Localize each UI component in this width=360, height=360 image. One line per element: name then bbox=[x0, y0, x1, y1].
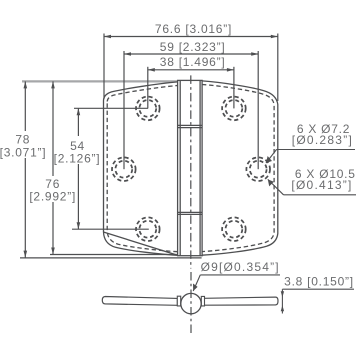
arrow 76 bottom bbox=[51, 248, 55, 255]
side view: left curl junction bbox=[177, 296, 180, 306]
svg-text:59 [2.323”]: 59 [2.323”] bbox=[160, 40, 226, 54]
barrel (knuckle column) bbox=[178, 80, 203, 255]
dimension 76.6 left extension bbox=[103, 34, 105, 100]
arrowheads bbox=[24, 35, 278, 258]
knuckle gap 1 bbox=[178, 124, 203, 126]
svg-text:76.6 [3.016”]: 76.6 [3.016”] bbox=[155, 22, 232, 36]
arrow 54 top bbox=[77, 108, 81, 115]
arrow 76 top bbox=[51, 81, 55, 88]
54 top extension line bbox=[74, 107, 148, 109]
side view (bottom): left leaf bbox=[102, 297, 177, 306]
svg-text:3.8 [0.150”]: 3.8 [0.150”] bbox=[284, 274, 354, 288]
arrow 59 left bbox=[124, 52, 131, 56]
svg-text:[Ø0.283”]: [Ø0.283”] bbox=[292, 133, 353, 147]
hole bottom-right bbox=[222, 217, 246, 241]
arrow O10.5 bbox=[268, 179, 274, 186]
svg-text:[Ø0.413”]: [Ø0.413”] bbox=[291, 178, 352, 192]
svg-text:[2.992”]: [2.992”] bbox=[29, 190, 76, 204]
dimension 76 line bbox=[52, 81, 54, 176]
hole bottom-left bbox=[136, 217, 160, 241]
dimension 78 line bbox=[24, 81, 26, 131]
arrow 3.8 top bbox=[281, 291, 284, 297]
side view: barrel circle bbox=[181, 293, 201, 313]
dimension 38 line bbox=[148, 69, 234, 71]
screw holes: dashed double circles bbox=[112, 97, 270, 241]
dimension 38 right extension bbox=[233, 67, 235, 109]
svg-text:[3.071”]: [3.071”] bbox=[0, 146, 46, 160]
arrow 78 bottom bbox=[24, 251, 28, 258]
arrow 3.8 bottom bbox=[281, 305, 284, 311]
arrow 38 right bbox=[227, 68, 234, 72]
svg-text:[2.126”]: [2.126”] bbox=[54, 152, 101, 166]
hole top-right bbox=[222, 97, 246, 121]
side view: pin center line bbox=[190, 272, 192, 334]
arrow 38 left bbox=[148, 68, 155, 72]
pin center line (main view) bbox=[190, 75, 192, 268]
dimension 59 right extension bbox=[257, 51, 259, 169]
78 bottom extension line bbox=[20, 257, 202, 259]
side view: right curl junction bbox=[201, 296, 204, 306]
hole mid-right bbox=[246, 157, 270, 181]
hinge leaf outline (top view) bbox=[104, 81, 278, 255]
knuckle gap 2 bbox=[178, 211, 203, 213]
leaf junction inner lines bbox=[179, 80, 181, 255]
dimension 54 line bbox=[77, 108, 79, 136]
dimension 59 left extension bbox=[123, 51, 125, 169]
arrow O7.2 bbox=[266, 156, 272, 163]
dimension 38 left extension bbox=[147, 67, 149, 109]
arrow 59 right bbox=[251, 52, 258, 56]
leader for O9 bbox=[200, 274, 280, 276]
leader for 6 X O10.5 bbox=[284, 194, 357, 196]
svg-text:78: 78 bbox=[15, 133, 30, 147]
dimension 59 line bbox=[124, 53, 258, 55]
76 bottom extension line bbox=[50, 254, 177, 256]
hole mid-left bbox=[112, 157, 136, 181]
arrow 78 top bbox=[24, 81, 28, 88]
svg-text:Ø9[Ø0.354”]: Ø9[Ø0.354”] bbox=[201, 260, 280, 274]
hole top-left bbox=[136, 97, 160, 121]
hinge hidden (dashed) inner outline bbox=[107, 85, 274, 252]
dimension 76.6 line bbox=[104, 36, 278, 38]
54 bottom extension line bbox=[72, 228, 149, 230]
arrow 54 bottom bbox=[77, 222, 81, 229]
arrow 76.6 right bbox=[271, 35, 278, 39]
3.8 dimension leader bbox=[282, 288, 354, 290]
svg-text:38 [1.496”]: 38 [1.496”] bbox=[160, 55, 226, 69]
arrow 76.6 left bbox=[104, 35, 111, 39]
top surface reference extension line (thick gray) bbox=[22, 80, 178, 82]
arrow O9 bbox=[193, 284, 198, 292]
side view: right leaf bbox=[204, 297, 278, 305]
dimension 76.6 right extension bbox=[277, 34, 279, 102]
leader for 6 X O7.2 bbox=[193, 150, 356, 314]
